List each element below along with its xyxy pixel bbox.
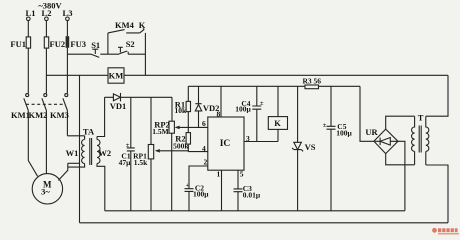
svg-text:1: 1 [217, 170, 221, 179]
svg-text:K: K [139, 20, 146, 30]
svg-text:S2: S2 [126, 39, 135, 49]
svg-text:±: ± [260, 100, 264, 107]
svg-text:KM1: KM1 [11, 110, 30, 120]
svg-text:±: ± [126, 142, 130, 149]
svg-text:±: ± [323, 122, 327, 129]
svg-text:0.01μ: 0.01μ [243, 191, 261, 200]
svg-text:IC: IC [220, 139, 231, 149]
svg-text:KM: KM [109, 71, 124, 81]
svg-text:4: 4 [202, 144, 206, 153]
svg-text:FU3: FU3 [70, 39, 86, 49]
svg-text:100μ: 100μ [193, 190, 209, 199]
svg-text:100μ: 100μ [235, 104, 251, 113]
svg-text:VS: VS [305, 142, 316, 152]
svg-text:6: 6 [202, 119, 206, 128]
svg-text:S1: S1 [91, 40, 100, 50]
svg-text:FU2: FU2 [50, 39, 66, 49]
svg-text:KM4: KM4 [115, 20, 135, 30]
svg-text:TA: TA [83, 127, 95, 137]
svg-text:47μ: 47μ [119, 158, 132, 167]
svg-text:3~: 3~ [41, 187, 50, 197]
svg-text:2: 2 [204, 158, 208, 167]
svg-text:10k: 10k [174, 106, 187, 115]
svg-text:VD1: VD1 [110, 101, 127, 111]
svg-text:+: + [186, 182, 190, 189]
svg-text:FU1: FU1 [10, 39, 26, 49]
svg-text:W2: W2 [98, 148, 111, 158]
svg-text:W1: W1 [66, 148, 79, 158]
svg-text:UR: UR [365, 127, 378, 137]
svg-text:8: 8 [217, 110, 221, 119]
svg-text:KM3: KM3 [50, 110, 69, 120]
svg-text:K: K [274, 118, 281, 128]
svg-text:5: 5 [240, 170, 244, 179]
svg-text:R3 56: R3 56 [303, 76, 322, 85]
svg-text:1.5M: 1.5M [152, 127, 168, 136]
svg-text:100μ: 100μ [336, 128, 352, 137]
svg-text:KM2: KM2 [29, 110, 48, 120]
svg-text:500k: 500k [173, 142, 189, 151]
svg-text:T: T [418, 113, 424, 123]
svg-text:L1: L1 [26, 8, 36, 18]
svg-text:1.5k: 1.5k [134, 158, 148, 167]
